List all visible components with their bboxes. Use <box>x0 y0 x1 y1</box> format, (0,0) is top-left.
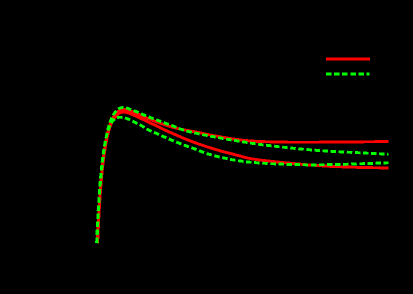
legend sample green dashed <box>326 73 370 76</box>
legend sample red <box>326 58 370 61</box>
curve red R2 (solid, lower asymptote) <box>98 112 389 243</box>
curve green G2 (dashed, lowest peak) <box>97 117 389 243</box>
curve red R1 (solid, upper asymptote) <box>97 109 388 243</box>
curve green G1 (dashed, highest peak) <box>97 108 389 244</box>
